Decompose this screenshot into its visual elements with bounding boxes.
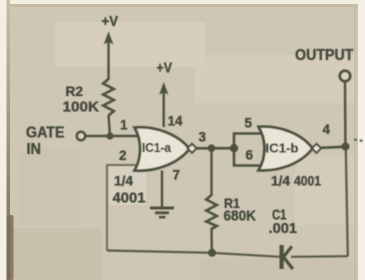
output bubble pin 4 of IC1-b: [312, 144, 321, 153]
svg-text:OUTPUT: OUTPUT: [295, 47, 354, 64]
wire pin 4 to output node: [321, 147, 343, 148]
node: output junction: [342, 143, 350, 151]
output bubble pin 3 of IC1-a: [188, 144, 197, 153]
svg-text:5: 5: [245, 116, 253, 131]
R2 value label: [63, 83, 100, 116]
resistor R2: [103, 79, 114, 133]
artifact marks: [354, 139, 357, 141]
+V supply 1 (top, above R2): [102, 14, 119, 80]
svg-text:680K: 680K: [224, 209, 257, 225]
right margin line: [354, 4, 357, 280]
node: junction R2 / gate input: [106, 132, 113, 139]
svg-text:14: 14: [168, 114, 183, 129]
wire GATE IN to node: [86, 135, 108, 138]
svg-text:2: 2: [119, 148, 127, 163]
pin 7 lead: [161, 171, 163, 208]
+V supply 2 (pin 14): [157, 60, 173, 128]
svg-text:100K: 100K: [63, 99, 100, 116]
OUTPUT terminal: [295, 47, 354, 143]
resistor R1: [206, 150, 217, 252]
wire pin 3 to IC1-b inputs: [197, 147, 233, 150]
svg-text:6: 6: [246, 148, 254, 163]
svg-text:IC1-a: IC1-a: [142, 140, 172, 155]
wire node to pin 1: [110, 135, 141, 138]
ground: [150, 208, 174, 217]
capacitor C1: [280, 245, 293, 269]
wire bottom right segment: [291, 255, 348, 258]
svg-text:IC1-b: IC1-b: [266, 141, 299, 156]
GATE IN terminal: [26, 125, 85, 159]
NOR gate IC1-b: [259, 127, 322, 171]
R1 value label: [224, 195, 257, 225]
svg-text:7: 7: [173, 168, 181, 183]
C1 value label: [269, 208, 298, 238]
svg-text:1/4: 1/4: [114, 173, 133, 189]
wire output node down right side: [346, 149, 348, 257]
1/4 4001 label for IC1-a: [113, 173, 146, 207]
wire to pin 5: [234, 134, 264, 149]
svg-text:4001: 4001: [113, 190, 146, 207]
svg-text:3: 3: [199, 130, 207, 145]
wire to pin 6: [234, 148, 264, 166]
scan mottle patches: [55, 22, 205, 67]
svg-text:4001: 4001: [294, 173, 321, 189]
svg-text:+V: +V: [102, 14, 119, 30]
svg-text:R2: R2: [66, 83, 84, 99]
NOR gate IC1-a: [135, 127, 197, 170]
svg-text:IN: IN: [27, 141, 42, 158]
svg-text:+V: +V: [157, 60, 173, 77]
svg-text:.001: .001: [269, 221, 298, 237]
node: R1 bottom junction: [208, 249, 216, 257]
node: pin3 / R1 junction: [208, 144, 216, 152]
svg-text:1/4: 1/4: [271, 173, 290, 189]
svg-text:GATE: GATE: [26, 125, 65, 142]
node: IC1-b input tie junction: [230, 144, 238, 152]
svg-text:4: 4: [323, 122, 331, 137]
svg-text:1: 1: [120, 118, 128, 133]
left gutter shadow: [7, 0, 11, 280]
wire bottom feedback run: [107, 251, 280, 257]
wire pin 2 feedback (left vertical): [107, 165, 141, 251]
